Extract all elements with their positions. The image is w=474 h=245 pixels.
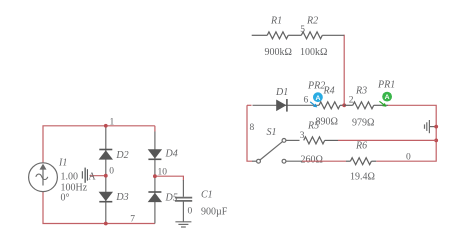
svg-text:D1: D1: [275, 87, 288, 98]
svg-text:1.00: 1.00: [61, 172, 79, 183]
diode D1: [253, 99, 320, 112]
wire right branch top drop: [154, 126, 156, 132]
ground below C1: [175, 222, 191, 227]
wire top rail node 1: [43, 126, 155, 163]
diode D3: [99, 192, 113, 202]
wire right rail lower: [376, 140, 436, 161]
svg-text:PR2: PR2: [307, 81, 325, 92]
svg-text:6: 6: [304, 95, 309, 105]
resistor R3: [344, 102, 388, 109]
svg-text:A: A: [385, 94, 390, 101]
wire stub at node 0: [90, 175, 106, 177]
switch S1: [252, 139, 302, 164]
wire R2 corner to node 2: [343, 35, 345, 106]
svg-text:R6: R6: [355, 141, 367, 152]
svg-text:D2: D2: [115, 150, 128, 161]
svg-text:900µF: 900µF: [201, 207, 228, 218]
wire bottom rail node 7: [43, 192, 155, 224]
svg-text:19.4Ω: 19.4Ω: [350, 172, 375, 183]
svg-text:PR1: PR1: [377, 79, 395, 90]
capacitor C1: [175, 180, 192, 222]
resistor R1: [252, 32, 289, 39]
svg-text:D4: D4: [165, 149, 178, 160]
svg-text:R2: R2: [306, 16, 318, 27]
svg-text:0: 0: [406, 152, 411, 162]
node 1: [104, 124, 108, 128]
wire R5 to right rail: [338, 139, 436, 141]
svg-text:7: 7: [130, 214, 135, 224]
svg-text:0: 0: [188, 207, 193, 217]
svg-text:R5: R5: [307, 121, 319, 132]
probe PR2: [310, 92, 323, 107]
resistor R6: [346, 158, 376, 165]
svg-text:260Ω: 260Ω: [301, 155, 323, 166]
wire PR1 to right rail: [388, 105, 436, 126]
wire node 10 to C1: [155, 176, 184, 180]
node junction ground: [434, 125, 438, 129]
wire right rail middle: [435, 127, 437, 141]
svg-text:R1: R1: [270, 16, 282, 27]
wire left vertical node 8: [247, 105, 252, 161]
right bridge branch wire: [154, 132, 156, 224]
svg-text:1: 1: [110, 117, 115, 127]
svg-text:S1: S1: [267, 127, 277, 138]
wire S1 bottom to R6: [302, 160, 346, 162]
node 10: [153, 174, 157, 178]
resistor R5: [304, 137, 338, 144]
current source I1: [29, 163, 58, 192]
svg-text:D3: D3: [115, 192, 128, 203]
diode D2: [99, 150, 113, 160]
svg-text:R4: R4: [323, 86, 335, 97]
resistor R4: [319, 102, 344, 109]
svg-text:979Ω: 979Ω: [352, 118, 374, 129]
diode D5: [148, 192, 162, 202]
node 0: [104, 174, 108, 178]
node 7: [104, 222, 108, 226]
svg-text:A: A: [315, 95, 320, 102]
wire between R1 R2: [288, 34, 301, 36]
resistor R2: [301, 32, 344, 39]
svg-text:I1: I1: [58, 158, 67, 169]
svg-text:10: 10: [158, 167, 168, 177]
node junction rows: [434, 139, 438, 143]
probe PR1: [379, 92, 392, 107]
svg-text:8: 8: [250, 123, 255, 133]
svg-text:C1: C1: [201, 190, 213, 201]
left bridge branch wire: [105, 126, 107, 224]
wire D1 corner: [247, 104, 252, 106]
node 2: [342, 103, 346, 107]
svg-text:0°: 0°: [61, 193, 70, 204]
svg-text:900kΩ: 900kΩ: [265, 47, 292, 58]
svg-text:100kΩ: 100kΩ: [300, 47, 327, 58]
svg-text:A: A: [88, 172, 96, 183]
diode D4: [148, 149, 162, 159]
svg-text:0: 0: [109, 166, 114, 176]
svg-text:R3: R3: [355, 86, 367, 97]
ground right side: [425, 120, 436, 133]
